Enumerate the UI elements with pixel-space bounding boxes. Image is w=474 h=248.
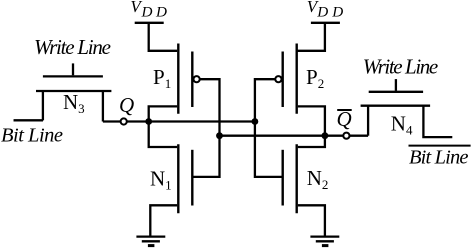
svg-text:Q: Q	[337, 107, 352, 131]
ground left	[136, 237, 165, 246]
transistor P2	[275, 44, 296, 114]
wire VDD right stem	[297, 23, 325, 51]
wire Q node	[103, 120, 121, 122]
wire Qbar rail	[220, 135, 344, 137]
wire Qbar to N4	[350, 135, 369, 137]
power VDD right rail	[311, 22, 340, 24]
wire P1/N1 drain column	[149, 106, 178, 147]
wire N1 source	[150, 205, 177, 236]
transistor N4	[361, 79, 453, 137]
power VDD left rail	[135, 22, 164, 24]
wire P2 gate to cross-couple	[255, 79, 282, 177]
svg-text:Bit Line: Bit Line	[409, 146, 469, 168]
junction dot Q right gate tap	[252, 118, 259, 125]
junction dot Q left	[145, 118, 152, 125]
overline of right Bit Line label	[409, 145, 471, 147]
wire P1 gate to cross-couple	[193, 79, 220, 177]
wire bit line left	[14, 119, 43, 121]
node Qbar bubble	[343, 133, 349, 139]
transistor N2	[283, 144, 297, 213]
wire N2 source	[298, 205, 325, 236]
transistor N1	[178, 144, 192, 213]
wire VDD left stem	[149, 23, 178, 51]
svg-text:Q: Q	[119, 93, 134, 117]
wire Q rail	[127, 120, 258, 122]
junction dot Qbar left gate tap	[216, 132, 223, 139]
svg-text:Bit Line: Bit Line	[1, 124, 63, 146]
overline of Qbar label	[337, 109, 352, 111]
ground right	[310, 237, 339, 246]
junction dot Qbar right	[322, 132, 329, 139]
node Q bubble	[121, 118, 127, 124]
transistor P1	[178, 44, 199, 114]
transistor N3	[14, 63, 112, 121]
svg-text:Write Line: Write Line	[34, 35, 111, 59]
svg-text:Write Line: Write Line	[363, 54, 439, 78]
wire P2/N2 drain column	[298, 106, 325, 147]
